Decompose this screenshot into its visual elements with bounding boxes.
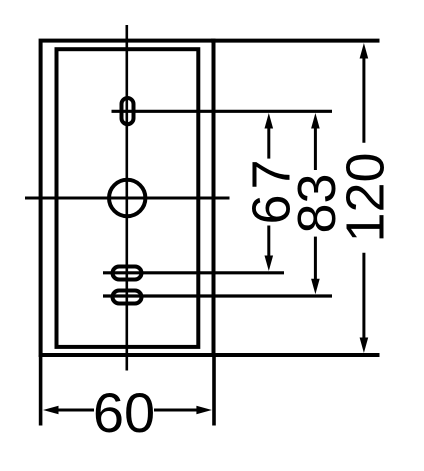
dimension 67 line bbox=[265, 113, 274, 271]
dimension 83 line bbox=[311, 113, 320, 294]
extension line top slot center bbox=[112, 110, 333, 113]
extension line lower slot 1 center bbox=[103, 271, 284, 274]
inner plate outline bbox=[57, 49, 199, 347]
lower slot hole 2 bbox=[113, 291, 142, 304]
svg-text:120: 120 bbox=[336, 152, 396, 242]
horizontal centerline bbox=[25, 197, 230, 200]
extension line top edge bbox=[211, 39, 380, 43]
extension line bottom right bbox=[212, 355, 216, 426]
extension line bottom edge bbox=[211, 353, 380, 357]
extension line bottom left bbox=[39, 355, 43, 426]
lower slot hole 1 bbox=[113, 267, 142, 280]
dimension 120 line bbox=[360, 43, 369, 353]
top slot hole bbox=[122, 98, 134, 124]
extension line lower slot 2 center bbox=[103, 294, 332, 297]
outer plate outline bbox=[41, 41, 214, 355]
svg-text:60: 60 bbox=[93, 381, 155, 444]
center circle hole bbox=[109, 180, 145, 216]
dimension 60 line bbox=[43, 406, 212, 415]
vertical centerline bbox=[126, 25, 129, 371]
